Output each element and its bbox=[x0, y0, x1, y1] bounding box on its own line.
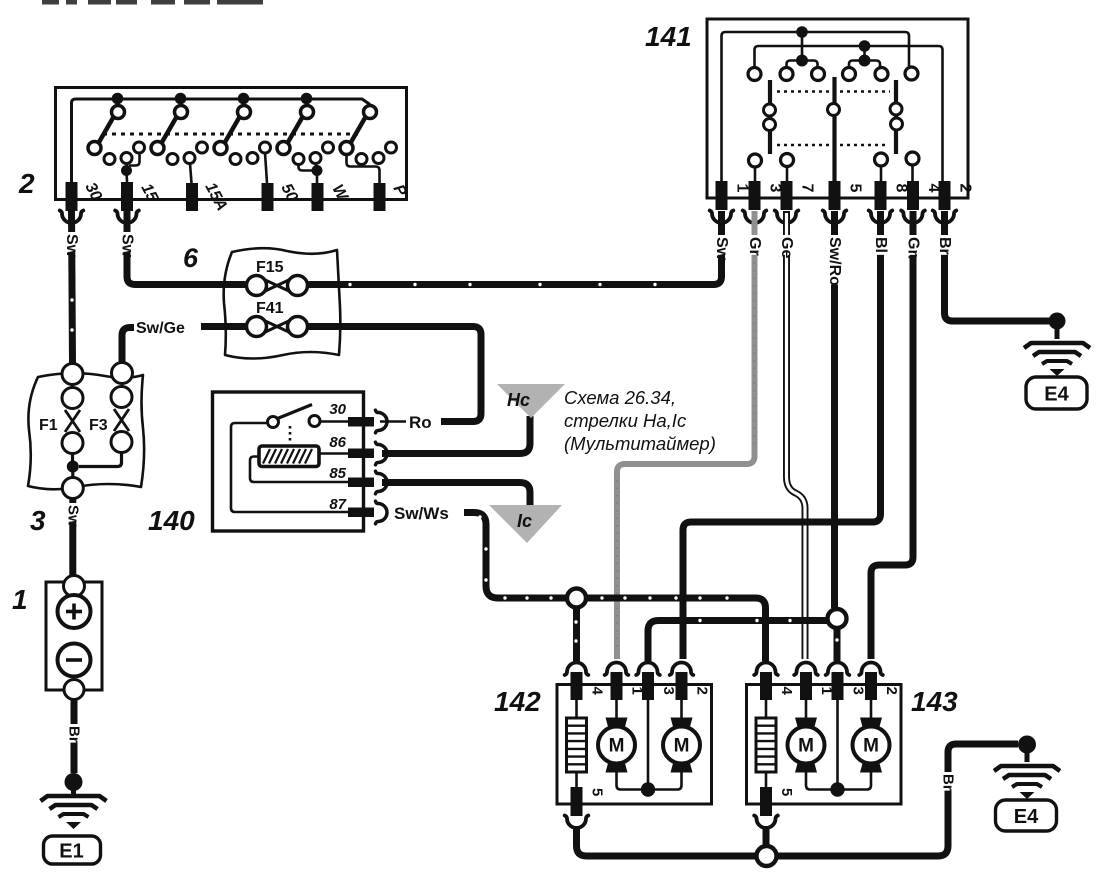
svg-text:(Мультитаймер): (Мультитаймер) bbox=[564, 433, 716, 454]
connector at relay terminal 86 bbox=[376, 442, 388, 465]
connector above pump 143 pin 3 bbox=[826, 663, 850, 676]
svg-text:2: 2 bbox=[694, 687, 711, 695]
pump 142 resistor lead bottom bbox=[575, 772, 578, 787]
ground symbol E1 bbox=[41, 796, 107, 829]
141 inner bus B bbox=[755, 46, 943, 181]
pump 142 motor common link bbox=[617, 772, 682, 790]
wire label Sw below fuse box 3 bbox=[64, 503, 81, 527]
switch 2 terminal 15A rect bbox=[186, 183, 198, 211]
switch 2 contact set 2 bbox=[151, 106, 208, 165]
svg-text:F3: F3 bbox=[89, 417, 108, 434]
label 3 bbox=[30, 505, 46, 536]
connector below pump 143 pin 5 bbox=[754, 816, 778, 829]
pump 142 pin 2 number bbox=[694, 687, 711, 695]
pump 142 pin 5 number bbox=[589, 788, 606, 796]
141 terminal 2 rect bbox=[939, 181, 951, 210]
relay 140 terminal 85 label bbox=[329, 465, 346, 482]
wire label Bl under 141-8 bbox=[872, 235, 889, 255]
relay 140 coil bbox=[259, 446, 319, 467]
pump 142 heater resistor bbox=[567, 718, 587, 772]
pump 143 motor M1 bbox=[788, 718, 825, 773]
141 terminal 1 rect bbox=[716, 181, 728, 210]
svg-text:5: 5 bbox=[589, 788, 606, 796]
connector above pump 143 pin 2 bbox=[859, 663, 883, 676]
141 terminal 5 number bbox=[847, 184, 864, 193]
pump 143 motor common link bbox=[806, 772, 871, 790]
svg-text:F41: F41 bbox=[256, 300, 284, 317]
pump 142 pin 4 rect bbox=[571, 672, 583, 700]
connector at relay terminal 87 bbox=[376, 501, 388, 524]
svg-text:Hc: Hc bbox=[507, 390, 530, 410]
pump 142 resistor lead top bbox=[575, 700, 578, 718]
relay 140 terminal 30 rect bbox=[348, 417, 374, 427]
svg-text:87: 87 bbox=[329, 496, 346, 513]
ground designation E4 top text bbox=[1044, 384, 1069, 406]
battery negative terminal bbox=[58, 644, 91, 677]
connector below 141 terminal 5 bbox=[823, 211, 847, 224]
node dot at E4 top bbox=[1049, 313, 1066, 330]
pump 142 pin 1 rect bbox=[611, 672, 623, 700]
switch 2 bus dot c bbox=[238, 93, 250, 105]
141 bus B node dot bbox=[859, 40, 871, 52]
connector above pump 142 pin 3 bbox=[636, 663, 660, 676]
ground designation E1 text bbox=[59, 841, 83, 863]
wire Ge 141-7 to pump 143 pin 1 outer bbox=[787, 211, 806, 659]
junction node c circle bbox=[757, 846, 777, 866]
relay 140 switch contact left bbox=[268, 417, 279, 428]
wire terminal 15 to fuse F15 bbox=[127, 211, 246, 285]
svg-text:142: 142 bbox=[494, 686, 541, 717]
141 terminal 7 rect bbox=[781, 181, 793, 210]
ground designation E4 bottom box bbox=[996, 800, 1057, 831]
switch 2 terminal 50 rect bbox=[262, 183, 274, 211]
wire F41 to relay 140 terminal 30 bbox=[308, 327, 482, 422]
fuse F41 bbox=[247, 317, 308, 337]
fuse F3 label bbox=[89, 417, 108, 434]
relay 140 terminal 30 label bbox=[329, 401, 346, 418]
wire label Br under 141-2 bbox=[936, 235, 953, 255]
wire label Sw/Ge bbox=[136, 320, 185, 337]
connector below 141 terminal 1 bbox=[710, 211, 734, 224]
wire label Gr under 141-3 bbox=[746, 235, 763, 256]
141 terminal 7 number bbox=[799, 184, 816, 193]
wire pump 142 pin 5 to junction c bbox=[577, 826, 757, 856]
relay 140 switch contact right bbox=[309, 416, 320, 427]
wire terminal 30 to fuse box 3 bbox=[72, 211, 73, 363]
switch 2 terminal W rect bbox=[312, 183, 324, 211]
wire junction c to ground E4 bottom bbox=[777, 744, 1019, 856]
svg-text:F15: F15 bbox=[256, 259, 284, 276]
svg-text:Bl: Bl bbox=[872, 237, 889, 253]
pump 143 motor M2 bbox=[853, 718, 890, 773]
pump 142 pin 4 number bbox=[589, 687, 606, 696]
pump 142 pin 5 rect bbox=[571, 787, 583, 816]
141 terminal 1 number bbox=[734, 184, 751, 193]
svg-text:85: 85 bbox=[329, 465, 346, 482]
pump 142 motor 1 lead bbox=[615, 700, 618, 718]
wire Sw/Ge to fuse F3 bbox=[122, 328, 134, 363]
fuse F1 to junction bbox=[71, 454, 74, 467]
svg-text:2: 2 bbox=[957, 184, 974, 193]
ground E4 top stub bbox=[1055, 321, 1060, 339]
svg-text:Sw/Ge: Sw/Ge bbox=[136, 320, 185, 337]
wire label Sw below terminal 30 bbox=[63, 232, 80, 258]
pump 143 motor 2 lead bbox=[870, 700, 873, 718]
141 wiper bar 3 bbox=[890, 80, 903, 154]
wire battery to ground E1 bbox=[71, 699, 78, 773]
svg-text:5: 5 bbox=[847, 184, 864, 193]
pump 143 resistor lead top bbox=[765, 700, 768, 718]
fuse box 3 entry circle left bbox=[62, 364, 83, 385]
relay 140 terminal 87 rect bbox=[348, 508, 374, 518]
pump 143 pin 2 rect bbox=[865, 672, 877, 700]
svg-text:4: 4 bbox=[778, 687, 795, 696]
ignition switch 2 box bbox=[56, 88, 407, 200]
relay 140 terminal 85 rect bbox=[348, 478, 374, 488]
svg-text:3: 3 bbox=[660, 687, 677, 695]
ground designation E1 box bbox=[44, 836, 101, 864]
bus line 2 pump 142 pin 3 to junction b bbox=[648, 621, 827, 662]
svg-text:Sw: Sw bbox=[63, 234, 80, 258]
svg-text:140: 140 bbox=[148, 505, 195, 536]
pump 143 pin 4 rect bbox=[760, 672, 772, 700]
svg-text:Sw: Sw bbox=[119, 234, 136, 258]
pump 142 motor M2 bbox=[663, 718, 700, 773]
wire Gn 141-4 to pump 143 pin 2 bbox=[871, 211, 913, 659]
label 6 bbox=[183, 243, 199, 273]
wire label Br at bottom right bbox=[940, 772, 957, 791]
svg-text:Br: Br bbox=[936, 237, 953, 255]
svg-text:5: 5 bbox=[778, 788, 795, 796]
connector at relay terminal 30 bbox=[376, 410, 388, 433]
svg-text:E1: E1 bbox=[59, 841, 83, 863]
svg-text:2: 2 bbox=[18, 168, 35, 199]
wire Ge 141-7 to pump 143 pin 1 core bbox=[787, 213, 806, 659]
141 lower contact terminal 4 bbox=[906, 152, 919, 181]
svg-text:E4: E4 bbox=[1014, 806, 1039, 828]
svg-text:3: 3 bbox=[850, 687, 867, 695]
relay 140 actuation dotted line bbox=[289, 426, 292, 444]
pump 142 pin 3 number bbox=[660, 687, 677, 695]
svg-text:8: 8 bbox=[893, 184, 910, 193]
fuse F15 bbox=[247, 276, 308, 296]
relay 140 switch-to-87 loop bbox=[231, 423, 348, 512]
label 143 bbox=[911, 686, 958, 717]
141 trident left bbox=[787, 32, 818, 67]
141 bus A node dot bbox=[796, 26, 808, 38]
fuse F3 to junction bbox=[79, 453, 122, 467]
pump 142 pin 2 rect bbox=[676, 672, 688, 700]
fuse box 3 exit circle bbox=[62, 478, 83, 499]
connector below terminal 30 bbox=[60, 211, 84, 224]
141 terminal 2 number bbox=[957, 184, 974, 193]
pump 142 motor M1 bbox=[598, 718, 635, 773]
141 terminal 8 rect bbox=[875, 181, 887, 210]
svg-text:M: M bbox=[798, 736, 814, 757]
ground designation E4 bottom text bbox=[1014, 806, 1039, 828]
141 fixed contact row bbox=[748, 67, 918, 81]
fuse F3 bbox=[111, 387, 132, 453]
wire relay 86 to arrow Hc bbox=[382, 416, 530, 454]
pump 143 pin 4 number bbox=[778, 687, 795, 696]
connector below terminal 15 bbox=[115, 211, 139, 224]
svg-text:Gr: Gr bbox=[746, 237, 763, 256]
switch 2 contact set 5 bbox=[340, 106, 397, 165]
connector above pump 143 pin 1 bbox=[794, 663, 818, 676]
connector above pump 142 pin 2 bbox=[670, 663, 694, 676]
pump 143 pin 1 number bbox=[818, 687, 835, 695]
svg-text:M: M bbox=[674, 736, 690, 757]
svg-text:4: 4 bbox=[589, 687, 606, 696]
junction node b circle bbox=[828, 609, 847, 628]
switch 2 bus dot b bbox=[175, 93, 187, 105]
fuse F15 label bbox=[256, 259, 284, 276]
connector below 141 terminal 2 bbox=[933, 211, 957, 224]
link and label Ro at relay terminal 30 bbox=[380, 413, 432, 432]
relay 140 terminal 86 rect bbox=[348, 449, 374, 459]
pump 143 common node dot bbox=[830, 782, 844, 796]
pump 143 pin 3 number bbox=[850, 687, 867, 695]
pump 142 pin 1 number bbox=[629, 687, 646, 695]
wire label Gn under 141-4 bbox=[905, 235, 922, 259]
label 2 bbox=[18, 168, 35, 199]
switch 2 contact set 3 bbox=[214, 106, 271, 165]
svg-text:Ic: Ic bbox=[517, 511, 532, 531]
141 wiper bar 1 bbox=[764, 80, 776, 154]
arrow Hc bbox=[497, 384, 565, 418]
ground designation E4 top box bbox=[1026, 377, 1087, 409]
label 142 bbox=[494, 686, 541, 717]
wire fuse box 3 to battery bbox=[69, 498, 76, 575]
node dot at E4 bottom bbox=[1018, 736, 1036, 754]
ground symbol E4 bottom bbox=[994, 766, 1060, 799]
arrow Ic bbox=[489, 505, 562, 543]
label Sw/Ws at relay terminal 87 bbox=[394, 504, 449, 523]
svg-text:30: 30 bbox=[329, 401, 346, 418]
fuse holder 6 box bbox=[224, 248, 341, 358]
wire Gr 141-3 to pump 142 pin 1 bbox=[617, 211, 755, 659]
fuse F3 link top bbox=[121, 383, 124, 387]
141 dotted line lower bbox=[777, 144, 889, 147]
141 lower contact terminal 8 bbox=[875, 153, 888, 181]
switch 2 terminal 15 label bbox=[137, 181, 161, 206]
141 terminal 4 rect bbox=[907, 181, 919, 210]
pump 142 motor 2 lead bbox=[680, 700, 683, 718]
switch 2 contact set 4 bbox=[277, 106, 334, 165]
switch 2 bus dot d bbox=[301, 93, 313, 105]
washer pump unit 142 box bbox=[557, 685, 712, 805]
pump 143 pin 2 number bbox=[883, 687, 900, 695]
wire label Sw/Ro under 141-5 bbox=[826, 235, 843, 286]
switch 2 terminal 50 label bbox=[277, 181, 300, 205]
fuse box 3 outline bbox=[28, 373, 144, 489]
battery bottom connector circle bbox=[64, 680, 84, 700]
relay 140 terminal 86 label bbox=[329, 434, 346, 451]
fuse F41 label bbox=[256, 300, 284, 317]
141 lower contact terminal 7 bbox=[781, 154, 794, 182]
wire stub Sw/Ge to F41 bbox=[201, 323, 246, 330]
ground symbol E4 top bbox=[1024, 343, 1090, 376]
switch 2 bus dot a bbox=[112, 93, 124, 105]
washer pump unit 143 box bbox=[747, 685, 902, 805]
node junction below fuses bbox=[67, 461, 79, 473]
svg-text:F1: F1 bbox=[39, 417, 58, 434]
fuse F1 link top bbox=[71, 384, 74, 388]
relay 140 switch arm bbox=[278, 405, 313, 419]
141 trident right bbox=[849, 46, 880, 67]
svg-text:2: 2 bbox=[883, 687, 900, 695]
ground E1 stub bbox=[71, 782, 76, 794]
svg-text:Схема 26.34,: Схема 26.34, bbox=[564, 387, 676, 408]
wire junction a down to pump 142 pin 4 bbox=[573, 608, 580, 662]
connector above pump 143 pin 4 bbox=[754, 663, 778, 676]
svg-text:Gn: Gn bbox=[905, 237, 922, 259]
switch 2 terminal 30 rect bbox=[66, 182, 78, 211]
node dot above ground E1 bbox=[65, 773, 83, 791]
switch 2 terminal W label bbox=[328, 182, 351, 205]
switch 2 terminal 15A label bbox=[201, 180, 230, 214]
svg-text:стрелки На,Ic: стрелки На,Ic bbox=[564, 410, 687, 431]
fuse F1 bbox=[62, 388, 83, 454]
wire pump 143 pin 5 to junction c bbox=[763, 826, 770, 846]
svg-text:1: 1 bbox=[734, 184, 751, 193]
battery positive terminal bbox=[58, 595, 91, 628]
switch 2 terminal 15 link bbox=[121, 153, 140, 182]
switch 2 terminal 15A link bbox=[190, 164, 192, 184]
svg-text:Sw/Ws: Sw/Ws bbox=[394, 504, 449, 523]
wire label Br below battery bbox=[66, 724, 83, 743]
connector at relay terminal 85 bbox=[376, 471, 388, 494]
wire speckles bbox=[70, 283, 949, 858]
141 terminal 3 number bbox=[767, 184, 784, 193]
svg-text:E4: E4 bbox=[1044, 384, 1069, 406]
svg-text:Sw: Sw bbox=[64, 505, 81, 527]
connector below 141 terminal 3 bbox=[743, 211, 767, 224]
switch 2 contact set 1 bbox=[88, 106, 145, 165]
pump 143 pin 3 lead bbox=[836, 700, 839, 789]
pump 143 heater resistor bbox=[756, 718, 776, 772]
wire label Ge under 141-7 bbox=[778, 235, 795, 258]
svg-text:86: 86 bbox=[329, 434, 346, 451]
battery top connector circle bbox=[64, 576, 85, 597]
label 140 bbox=[148, 505, 195, 536]
svg-text:7: 7 bbox=[799, 184, 816, 193]
pump 143 pin 1 rect bbox=[800, 672, 812, 700]
switch 2 terminal 50 link bbox=[265, 153, 267, 183]
label 1 bbox=[12, 584, 28, 615]
wire Sw/Ro 141-5 to junction node bbox=[831, 211, 838, 608]
switch 2 supply bus from terminal 30 bbox=[72, 99, 371, 182]
battery 1 box bbox=[46, 582, 102, 690]
svg-text:M: M bbox=[863, 736, 879, 757]
wire junction b down to pump 143 pin 3 bbox=[834, 628, 841, 661]
relay 140 coil to terminal 86 bbox=[319, 452, 348, 455]
relay 140 coil to terminal 85 bbox=[250, 457, 348, 483]
fuse F1 label bbox=[39, 417, 58, 434]
relay 140 box bbox=[213, 392, 364, 531]
connector above pump 142 pin 1 bbox=[605, 663, 629, 676]
relay 140 terminal 87 label bbox=[329, 496, 346, 513]
pump 143 pin 5 number bbox=[778, 788, 795, 796]
141 wiper bar 2 riser terminal 5 bbox=[828, 77, 840, 181]
141 terminal 5 rect bbox=[829, 181, 841, 210]
141 terminal 8 number bbox=[893, 184, 910, 193]
wire label Sw below terminal 15 bbox=[119, 232, 136, 258]
switch 2 terminal W link bbox=[299, 163, 323, 183]
wire Br 141-2 to ground E4 top bbox=[945, 211, 1050, 321]
fuse box 3 entry circle right bbox=[112, 363, 133, 384]
junction node a circle bbox=[567, 589, 586, 608]
pump 143 motor 1 lead bbox=[805, 700, 808, 718]
connector below 141 terminal 8 bbox=[869, 211, 893, 224]
switch 2 terminal 15 rect bbox=[121, 182, 133, 211]
connector above pump 142 pin 4 bbox=[565, 663, 589, 676]
svg-text:6: 6 bbox=[183, 243, 199, 273]
wire relay 85 to arrow Ic bbox=[382, 483, 530, 509]
wire Sw/Ws relay 87 to junction a bbox=[464, 513, 567, 599]
141 terminal 4 number bbox=[925, 184, 942, 193]
schema note text bbox=[564, 387, 716, 454]
svg-text:143: 143 bbox=[911, 686, 958, 717]
svg-text:Br: Br bbox=[940, 774, 957, 791]
svg-text:Sw: Sw bbox=[713, 237, 730, 261]
switch 2 terminal P rect bbox=[374, 183, 386, 211]
wire Bl 141-8 to pump 142 pin 2 bbox=[683, 211, 881, 659]
141 terminal 3 rect bbox=[749, 181, 761, 210]
connector below 141 terminal 7 bbox=[775, 211, 799, 224]
svg-text:Ro: Ro bbox=[409, 413, 432, 432]
switch 2 mechanical coupling dotted line bbox=[103, 133, 358, 136]
pump 143 pin 3 rect bbox=[832, 672, 844, 700]
pump 142 pin 3 lead bbox=[647, 700, 650, 789]
svg-text:1: 1 bbox=[12, 584, 28, 615]
ground E4 bottom stub bbox=[1025, 744, 1030, 762]
wire label Sw under 141-1 bbox=[713, 235, 730, 261]
pump 143 resistor lead bottom bbox=[765, 772, 768, 787]
pump 142 pin 3 rect bbox=[642, 672, 654, 700]
switch 2 terminal P label bbox=[389, 182, 409, 200]
relay 140 switch to terminal 30 bbox=[320, 420, 348, 423]
wiper switch 141 box bbox=[707, 19, 968, 198]
scan artifact dashes top edge bbox=[42, 0, 263, 5]
svg-text:Sw/Ro: Sw/Ro bbox=[826, 237, 843, 286]
svg-text:141: 141 bbox=[645, 21, 692, 52]
junction a continue to pump 143 pin 4 bbox=[587, 598, 766, 661]
141 inner bus A from terminal 1 bbox=[722, 32, 910, 181]
svg-text:3: 3 bbox=[30, 505, 46, 536]
svg-text:Ge: Ge bbox=[778, 237, 795, 258]
connector below 141 terminal 4 bbox=[901, 211, 925, 224]
141 dotted line upper bbox=[777, 90, 890, 93]
label 141 bbox=[645, 21, 692, 52]
svg-text:M: M bbox=[609, 736, 625, 757]
pump 143 pin 5 rect bbox=[760, 787, 772, 816]
switch 2 terminal 30 label bbox=[81, 180, 104, 204]
wire F15 to wiper switch terminal 1 bbox=[308, 211, 722, 285]
connector below pump 142 pin 5 bbox=[565, 816, 589, 829]
pump 142 common node dot bbox=[641, 782, 655, 796]
svg-text:Br: Br bbox=[66, 726, 83, 743]
141 lower contact terminal 3 bbox=[749, 154, 762, 181]
junction to exit circle bbox=[71, 466, 74, 477]
switch 2 terminal P link bbox=[347, 154, 380, 183]
